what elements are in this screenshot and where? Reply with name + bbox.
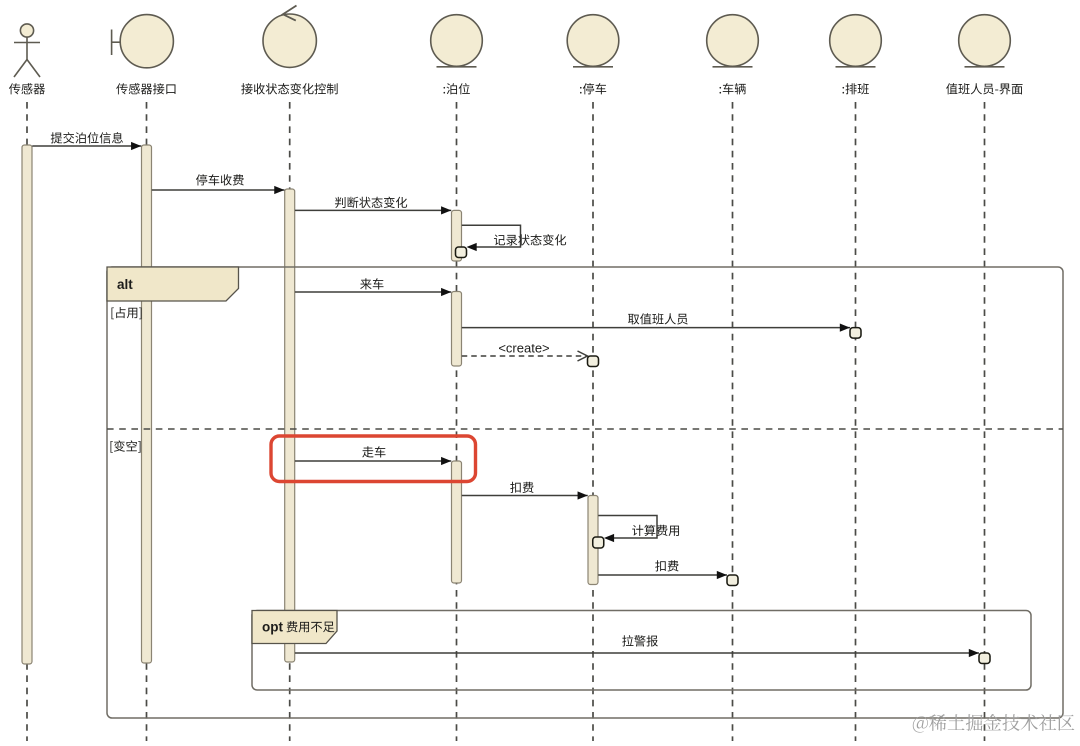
message end square :排班 bbox=[850, 328, 861, 339]
entity object 值班人员-界面 bbox=[959, 15, 1011, 67]
lifeline :车辆 bbox=[732, 102, 734, 741]
activation bar 传感器接口 bbox=[142, 145, 152, 663]
message 停车收费 bbox=[152, 189, 285, 191]
message 判断状态变化 bbox=[295, 209, 451, 211]
opt pentagon label bbox=[252, 611, 337, 644]
message end square :停车 create bbox=[588, 356, 599, 367]
guard [占用] bbox=[111, 307, 141, 319]
message 取值班人员 bbox=[462, 327, 850, 329]
message 来车 bbox=[295, 291, 451, 293]
lifeline :泊位 bbox=[456, 102, 458, 741]
self message end square :停车 bbox=[593, 537, 604, 548]
entity object :排班 bbox=[830, 15, 882, 67]
alt combined fragment frame bbox=[107, 267, 1063, 718]
message 提交泊位信息 bbox=[32, 145, 141, 147]
message 拉警报 bbox=[295, 652, 979, 654]
activation bar 接收状态变化控制 bbox=[285, 189, 295, 662]
watermark bbox=[913, 714, 1075, 733]
lifeline 传感器接口 bbox=[146, 102, 148, 741]
activation bar :泊位 #2 bbox=[452, 292, 462, 367]
actor 传感器 bbox=[14, 24, 40, 77]
self message 记录状态变化 bbox=[462, 225, 521, 247]
entity object :停车 bbox=[567, 15, 619, 67]
activation bar :泊位 #1 bbox=[452, 210, 462, 261]
entity object :泊位 bbox=[431, 15, 483, 67]
lifeline 值班人员-界面 bbox=[984, 102, 986, 741]
svg-text:alt: alt bbox=[117, 277, 133, 292]
message end square 值班人员-界面 bbox=[979, 653, 990, 664]
red highlight box bbox=[271, 436, 476, 482]
entity object :车辆 bbox=[707, 15, 759, 67]
control object 接收状态变化控制 bbox=[263, 14, 316, 67]
activation bar 传感器 bbox=[22, 145, 32, 664]
lifeline :排班 bbox=[855, 102, 857, 741]
self message end square :泊位 bbox=[456, 247, 467, 258]
message 走车 bbox=[295, 460, 451, 462]
activation bar :泊位 #3 bbox=[452, 461, 462, 583]
message create bbox=[462, 355, 586, 357]
self message 计算费用 bbox=[598, 516, 657, 539]
alt pentagon label bbox=[107, 267, 239, 301]
message 扣费 to 停车 bbox=[462, 495, 588, 497]
lifeline :停车 bbox=[592, 102, 594, 741]
svg-text:opt: opt bbox=[262, 620, 283, 635]
message 扣费 to 车辆 bbox=[598, 574, 727, 576]
boundary object 传感器接口 bbox=[112, 15, 174, 68]
opt combined fragment frame bbox=[252, 611, 1031, 691]
alt divider dashed line bbox=[107, 428, 1063, 430]
lifeline 接收状态变化控制 bbox=[289, 102, 291, 741]
guard [变空] bbox=[110, 440, 140, 452]
lifeline 传感器 bbox=[26, 102, 28, 741]
message end square :车辆 bbox=[727, 575, 738, 586]
activation bar :停车 bbox=[588, 496, 598, 585]
svg-text:<create>: <create> bbox=[498, 341, 549, 356]
